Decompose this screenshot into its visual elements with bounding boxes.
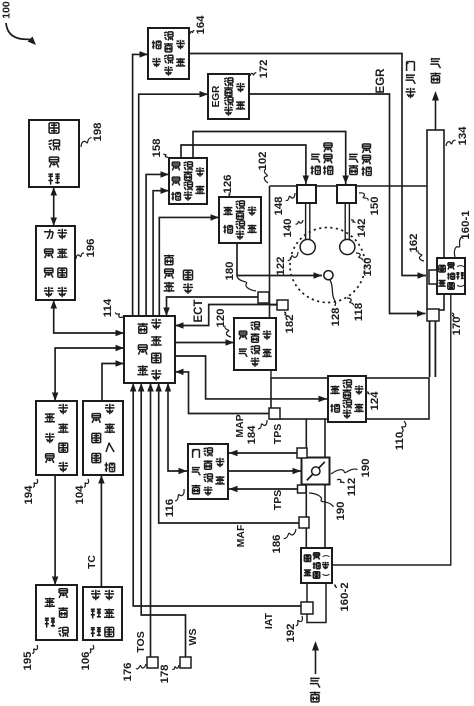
svg-text:182: 182 [284,314,296,333]
svg-text:116: 116 [164,499,176,517]
svg-text:): ) [321,554,330,557]
svg-text:IAT: IAT [263,612,275,629]
svg-text:): ) [456,264,465,267]
svg-text:196: 196 [85,238,97,257]
svg-text:TOS: TOS [135,631,147,652]
svg-text:190: 190 [335,501,347,520]
svg-text:160-1: 160-1 [460,210,472,240]
svg-text:180: 180 [224,261,236,280]
svg-text:EGR: EGR [375,68,387,94]
svg-text:MAP: MAP [234,414,246,437]
svg-text:TPS: TPS [272,424,284,444]
svg-text:128: 128 [330,307,342,326]
svg-text:100: 100 [1,1,13,19]
svg-text:WS: WS [187,629,199,646]
svg-text:164: 164 [195,15,207,35]
svg-text:190: 190 [360,458,372,477]
svg-text:172: 172 [258,59,270,78]
svg-text:176: 176 [122,662,134,681]
svg-text:148: 148 [273,196,285,215]
svg-text:122: 122 [275,256,287,275]
svg-text:114: 114 [102,298,114,317]
svg-text:110: 110 [394,432,406,450]
svg-text:(: ( [321,573,330,576]
svg-text:124: 124 [369,391,381,411]
svg-text:195: 195 [22,651,34,671]
svg-text:178: 178 [159,664,171,683]
svg-text:158: 158 [151,138,163,157]
svg-text:112: 112 [346,478,358,496]
svg-text:186: 186 [271,534,283,553]
svg-text:162: 162 [408,233,420,252]
svg-text:184: 184 [246,425,258,445]
svg-text:130: 130 [362,257,374,276]
svg-text:170: 170 [451,316,463,335]
svg-text:160-2: 160-2 [339,582,351,611]
svg-text:150: 150 [369,196,381,215]
svg-text:140: 140 [282,218,294,237]
svg-text:TPS: TPS [272,490,284,510]
svg-text:142: 142 [356,218,368,237]
svg-text:MAF: MAF [235,524,247,547]
svg-text:134: 134 [457,126,469,146]
svg-text:118: 118 [353,303,365,321]
svg-text:TC: TC [86,555,98,569]
svg-text:192: 192 [285,623,297,642]
svg-text:126: 126 [222,174,234,193]
svg-text:198: 198 [92,122,104,141]
svg-text:ECT: ECT [193,300,205,323]
svg-text:102: 102 [257,151,269,170]
svg-text:(: ( [456,284,465,287]
svg-text:106: 106 [80,651,92,670]
svg-text:120: 120 [215,308,227,327]
svg-text:EGR: EGR [211,85,222,108]
